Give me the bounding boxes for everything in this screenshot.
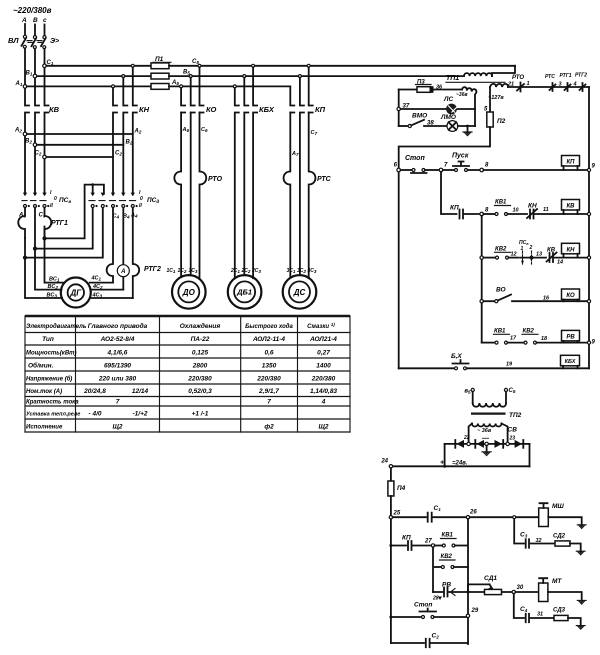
row R3 A3 to PSd pole2 [25, 208, 103, 258]
svg-text:С5: С5 [509, 388, 516, 394]
feeder row A with fuse P1 [27, 85, 151, 87]
svg-text:7: 7 [116, 399, 120, 406]
feeder row C with fuse P1 [46, 65, 151, 67]
svg-text:КН: КН [139, 105, 150, 114]
svg-text:КП: КП [450, 205, 459, 212]
svg-text:А: А [21, 17, 27, 24]
svg-text:220/380: 220/380 [256, 376, 281, 383]
svg-text:КП: КП [402, 535, 411, 542]
relay coil KV [562, 200, 580, 215]
svg-text:2С1: 2С1 [230, 268, 240, 274]
svg-text:ЛМО: ЛМО [440, 114, 456, 121]
svg-text:СД1: СД1 [484, 575, 497, 582]
svg-text:КВ: КВ [566, 204, 575, 210]
wire B bus upper [35, 49, 39, 194]
button Stop [401, 169, 412, 171]
svg-text:Пуск: Пуск [452, 153, 469, 160]
svg-text:0: 0 [54, 196, 57, 202]
svg-text:СД2: СД2 [553, 534, 566, 540]
svg-text:16: 16 [543, 296, 550, 302]
svg-text:РВ: РВ [566, 334, 575, 340]
switch PSd dashed linkage [89, 200, 136, 202]
svg-text:-1/+2: -1/+2 [133, 411, 148, 418]
svg-text:С2: С2 [35, 151, 42, 157]
svg-text:А4: А4 [130, 213, 138, 219]
svg-text:КВ2: КВ2 [495, 247, 507, 253]
switch VMO [399, 125, 408, 127]
svg-text:695/1390: 695/1390 [104, 363, 131, 370]
junction row B to KN wire [122, 75, 125, 78]
svg-text:4,1/6,6: 4,1/6,6 [107, 350, 128, 357]
diode D4 [515, 440, 524, 448]
node 30 [512, 590, 515, 593]
clutch coil MSh [539, 503, 549, 526]
wire C7 with RTS heater [309, 113, 316, 279]
wire B3 middle [34, 208, 36, 248]
svg-text:ВО: ВО [496, 287, 506, 294]
motor DG [61, 278, 91, 308]
svg-text:КО: КО [566, 293, 575, 299]
ground at SD3 [576, 626, 585, 630]
wire A7 with RTS heater [284, 113, 291, 278]
svg-text:2800: 2800 [192, 363, 208, 370]
wire B3 down to motor VS2 [34, 247, 37, 250]
svg-text:РТС: РТС [317, 176, 332, 183]
svg-text:3С3: 3С3 [308, 268, 317, 274]
svg-text:МШ: МШ [552, 503, 564, 510]
svg-text:ДО: ДО [182, 288, 196, 297]
svg-text:Тип: Тип [42, 336, 54, 343]
svg-text:Стоп: Стоп [414, 602, 432, 609]
feeder row B with fuse P1 [37, 75, 151, 77]
svg-text:КВ: КВ [547, 248, 556, 254]
node26 vertical bus [467, 519, 469, 643]
svg-text:КВ2: КВ2 [441, 554, 453, 560]
svg-text:РТГ2: РТГ2 [575, 73, 587, 79]
resistor SD3 [554, 615, 568, 620]
svg-text:ПА-22: ПА-22 [191, 336, 210, 343]
junction row B to DO branch [189, 75, 192, 78]
transformer TP2 core bar [471, 413, 506, 415]
ammeter A [117, 265, 129, 277]
rung KP dc [389, 544, 392, 547]
svg-text:1400: 1400 [316, 363, 331, 370]
svg-text:ДС: ДС [293, 288, 306, 297]
lamp loop left wire [398, 90, 400, 127]
diode D1 [455, 440, 464, 448]
motor DS [283, 275, 317, 309]
svg-text:26: 26 [469, 510, 477, 516]
button Pusk [443, 169, 454, 171]
svg-text:~220/380в: ~220/380в [13, 6, 52, 15]
svg-text:1,14/0,83: 1,14/0,83 [310, 388, 337, 395]
svg-text:РТГ2: РТГ2 [144, 266, 161, 273]
svg-text:КБХ: КБХ [565, 359, 576, 365]
svg-text:Исполнение: Исполнение [26, 425, 63, 431]
contact KV1 [483, 213, 494, 215]
junction row B to DS branch [298, 75, 301, 78]
thermal contact RTO [508, 86, 589, 88]
right control bus [588, 87, 590, 368]
wire phase C drop to switch [44, 25, 46, 36]
fuse P2 [489, 87, 491, 112]
ground at MSh [577, 525, 586, 529]
svg-text:А6: А6 [182, 127, 190, 133]
svg-text:220 или 380: 220 или 380 [98, 376, 137, 383]
button Stop dc [422, 616, 425, 619]
wire B4 with ammeter to 4S2 [122, 208, 124, 290]
svg-text:Кратность тока: Кратность тока [26, 400, 79, 406]
svg-text:Об/мин.: Об/мин. [28, 362, 54, 370]
junction to C3 branch [513, 516, 516, 519]
svg-text:В2: В2 [25, 139, 32, 145]
svg-text:ВМО: ВМО [412, 113, 427, 120]
row R1 C3 to PSd bypass [45, 185, 104, 239]
svg-text:СВ: СВ [508, 427, 518, 434]
switch PSv pole C [42, 193, 49, 208]
contact KV2 dc branch [432, 547, 434, 592]
svg-text:29: 29 [471, 608, 479, 614]
secondary end stubs to bridge [469, 424, 508, 444]
lamp LMO [447, 121, 458, 132]
svg-text:~ 36в: ~ 36в [477, 428, 492, 434]
motor DBH [228, 275, 262, 309]
svg-text:ДГ: ДГ [69, 289, 82, 298]
svg-text:РТС: РТС [545, 74, 555, 80]
bridge center node [485, 442, 488, 445]
svg-text:Щ2: Щ2 [318, 424, 328, 431]
resistor SD2 [555, 541, 570, 546]
discharge branch C3 / SD2 [514, 519, 524, 544]
svg-text:Уставка тепл.реле: Уставка тепл.реле [26, 412, 80, 418]
svg-text:2С2: 2С2 [241, 268, 251, 274]
svg-text:Быстрого хода: Быстрого хода [245, 324, 293, 330]
svg-text:1350: 1350 [262, 363, 277, 370]
thermal relay RTG1 heater on wire A3 [18, 208, 25, 239]
svg-text:22: 22 [463, 435, 470, 441]
transformer secondary ~36V to lamp loop [462, 87, 476, 126]
transformer TP2 primary winding [473, 403, 506, 407]
wire C bus upper [45, 49, 49, 194]
svg-text:~36в: ~36в [456, 92, 468, 98]
node 7 [439, 168, 443, 172]
contact KV2 [483, 257, 495, 259]
svg-text:—: — [481, 436, 490, 443]
wire C3 down to motor VS1 [43, 237, 46, 240]
node 8 lower [480, 212, 484, 216]
transformer TP1 primary winding on row B [464, 73, 492, 76]
svg-text:АОЛ2-11-4: АОЛ2-11-4 [252, 336, 285, 343]
svg-text:12/14: 12/14 [132, 388, 149, 395]
svg-text:18: 18 [541, 336, 548, 342]
wire A4 with RTG2 heater to 4S3 [133, 208, 139, 299]
wire stop to node7 [425, 169, 439, 171]
svg-text:КВ: КВ [49, 105, 60, 114]
svg-text:=24в.: =24в. [452, 461, 468, 467]
lamp LS [446, 104, 458, 115]
button BH [455, 367, 458, 370]
row B2 crossover [33, 143, 37, 147]
dc output wire to node 24 [391, 465, 530, 467]
svg-text:Стоп: Стоп [405, 155, 425, 162]
node 26 [466, 516, 469, 519]
svg-text:30: 30 [517, 585, 524, 591]
contactor KN branch wires [113, 88, 117, 195]
row C2 crossover [43, 155, 47, 159]
junction row B to DBH branch [243, 75, 246, 78]
svg-text:А5: А5 [171, 80, 179, 86]
svg-text:КВ1: КВ1 [495, 200, 507, 206]
svg-text:0,6: 0,6 [264, 350, 273, 357]
svg-text:12: 12 [511, 252, 517, 258]
node A1 [23, 85, 27, 89]
svg-text:П4: П4 [397, 485, 406, 492]
junction row C to DO branch [198, 64, 201, 67]
contactor KO contacts [181, 88, 185, 113]
relay coil KO [562, 289, 580, 301]
wire to KP coil [483, 169, 589, 171]
fuse P4 [390, 468, 392, 481]
relay coil KP [562, 156, 580, 171]
node C1 [43, 64, 47, 68]
transformer TP1 bracket from row C [492, 66, 515, 76]
node 6 [397, 168, 401, 172]
svg-text:- 4/0: - 4/0 [88, 411, 101, 418]
fuse P3 [399, 89, 417, 91]
svg-text:С7: С7 [311, 130, 318, 136]
transformer secondary ~127V winding [490, 84, 508, 87]
motor DG 4S rows [90, 283, 133, 298]
junction at potentiometer [467, 591, 470, 594]
svg-text:А2: А2 [14, 128, 22, 134]
svg-text:с: с [43, 17, 47, 24]
switch VO [495, 300, 498, 303]
bridge row wire [445, 443, 530, 445]
svg-text:31: 31 [537, 612, 543, 618]
svg-text:220/380: 220/380 [311, 376, 336, 383]
svg-text:ТП2: ТП2 [509, 412, 522, 419]
svg-text:1С2: 1С2 [178, 268, 187, 274]
diode D3 [495, 440, 504, 448]
relay coil KN [562, 243, 580, 257]
motor DO [172, 275, 206, 309]
svg-text:3С2: 3С2 [297, 268, 306, 274]
svg-text:В2: В2 [126, 140, 133, 146]
relay coil KBH [561, 355, 580, 368]
svg-text:0,125: 0,125 [192, 350, 209, 357]
svg-text:21: 21 [507, 82, 514, 88]
contactor KP contacts [290, 88, 294, 113]
ground at MT [577, 600, 586, 604]
switch PSv dashed linkage [22, 200, 46, 202]
contactor KBH contacts [235, 88, 239, 278]
svg-text:РТГ1: РТГ1 [51, 220, 68, 227]
junction row A to KN wire [112, 85, 115, 88]
svg-text:13: 13 [536, 252, 542, 258]
svg-text:220/380: 220/380 [187, 376, 212, 383]
svg-text:КП: КП [566, 160, 575, 166]
svg-text:27: 27 [424, 539, 432, 545]
wire phase B drop to switch [34, 25, 36, 36]
svg-text:20/24,8: 20/24,8 [83, 388, 106, 395]
junction PSd pole1 top feed [91, 183, 94, 186]
svg-text:КН: КН [528, 203, 537, 210]
table frame [25, 315, 350, 318]
svg-text:КБХ: КБХ [259, 105, 275, 114]
svg-text:+: + [440, 460, 444, 467]
svg-text:24: 24 [380, 459, 388, 465]
node B1 [33, 74, 37, 78]
junction row A to DO branch [180, 85, 183, 88]
svg-text:28: 28 [432, 596, 439, 602]
svg-text:С6: С6 [201, 127, 208, 133]
node 29 [466, 614, 469, 617]
wire node7 down [441, 172, 457, 214]
svg-text:РТО: РТО [208, 176, 223, 183]
transformer TP2 secondary winding [472, 424, 501, 427]
svg-text:ВС2: ВС2 [48, 284, 59, 290]
junction at ground tap [466, 125, 469, 128]
relay coil RV [562, 330, 580, 342]
svg-text:АОЛ21-4: АОЛ21-4 [309, 336, 337, 343]
svg-text:КН: КН [566, 247, 575, 253]
svg-text:В: В [33, 17, 38, 24]
node 37 [397, 107, 400, 110]
svg-text:4С1: 4С1 [91, 276, 102, 282]
svg-text:РТО: РТО [512, 75, 524, 81]
svg-text:С2: С2 [115, 151, 122, 157]
svg-text:0,27: 0,27 [317, 350, 330, 357]
row R2 B3 to PSd pole1 [35, 208, 93, 249]
switch VL pole C [41, 36, 46, 49]
svg-text:ф2: ф2 [264, 424, 274, 431]
ground at SD2 [576, 551, 585, 555]
svg-text:1С3: 1С3 [189, 268, 198, 274]
svg-text:10: 10 [513, 208, 519, 214]
wire A3 down to motor VS3 [24, 256, 27, 259]
svg-text:Э>: Э> [50, 38, 59, 45]
node 8 vertical [481, 216, 483, 343]
svg-text:ДБ1: ДБ1 [236, 288, 252, 297]
wire phase A drop to switch [24, 24, 26, 35]
svg-text:+1 /-1: +1 /-1 [192, 411, 209, 418]
node C5 tap [504, 388, 507, 391]
svg-text:А1: А1 [15, 81, 23, 87]
svg-text:14: 14 [557, 260, 563, 266]
wire A6 with RTO heater [174, 113, 181, 278]
svg-text:МТ: МТ [552, 578, 562, 585]
thermal relay RTG1 heater on wire C3 [45, 208, 52, 239]
switch VL pole A [22, 35, 27, 48]
svg-text:Щ2: Щ2 [112, 424, 122, 431]
svg-text:ТП1: ТП1 [446, 75, 459, 82]
svg-text:ЛС: ЛС [443, 96, 453, 103]
svg-text:А7: А7 [291, 151, 299, 157]
svg-text:В1: В1 [26, 71, 33, 77]
svg-text:ВС3: ВС3 [47, 293, 58, 299]
svg-text:КО: КО [206, 105, 217, 114]
svg-text:4: 4 [321, 399, 326, 406]
junction row C to DS branch [307, 64, 310, 67]
svg-text:КВ1: КВ1 [442, 533, 454, 539]
node 9 lower [587, 341, 590, 344]
svg-text:Напряжение (б): Напряжение (б) [26, 376, 72, 383]
node 24 [389, 465, 392, 468]
node B5 tap [471, 388, 474, 391]
ground at lamp circuit [463, 126, 472, 136]
svg-text:Мощность(кВт): Мощность(кВт) [26, 351, 77, 357]
capacitor C1 [393, 516, 426, 518]
junction row C to DBH branch [252, 64, 255, 67]
svg-text:3: 3 [559, 82, 562, 88]
svg-text:3С1: 3С1 [287, 268, 296, 274]
svg-text:Электродвигатель: Электродвигатель [26, 324, 87, 330]
switch VL linkage dashes [27, 41, 43, 43]
node 8 [480, 168, 484, 172]
svg-text:Ном.ток (А): Ном.ток (А) [26, 389, 62, 395]
svg-text:4: 4 [573, 82, 577, 88]
wire A bus upper [25, 48, 29, 194]
brake coil MT [516, 591, 539, 593]
svg-text:КВ2: КВ2 [523, 329, 535, 335]
svg-text:2С3: 2С3 [251, 268, 261, 274]
junction row A to DBH branch [233, 85, 236, 88]
svg-text:Главного привода: Главного привода [88, 322, 148, 330]
svg-text:АО2-52-8/4: АО2-52-8/4 [100, 336, 135, 343]
diode D2 [475, 440, 484, 448]
svg-text:17: 17 [510, 336, 517, 342]
svg-text:2,9/1,7: 2,9/1,7 [258, 388, 279, 395]
node 22 [467, 442, 470, 445]
svg-text:25: 25 [393, 511, 401, 517]
switch VL pole B [32, 36, 37, 49]
svg-text:Б,Х: Б,Х [451, 353, 462, 360]
svg-text:СД3: СД3 [553, 608, 566, 614]
svg-text:А2: А2 [134, 129, 142, 135]
wire B6 [190, 113, 192, 276]
wire LMO to loop right [458, 125, 475, 127]
node 9 [587, 168, 590, 171]
wire to lamp LS [400, 108, 475, 110]
node 25 [389, 516, 392, 519]
discharge branch C4 / SD3 [514, 594, 524, 618]
left dc bus [390, 496, 392, 643]
node 23 [506, 442, 509, 445]
svg-text:П2: П2 [497, 118, 506, 125]
bridge output corners [445, 444, 530, 466]
rung capacitor C2 [391, 642, 424, 644]
ground at bridge center [482, 446, 491, 456]
svg-text:1С1: 1С1 [167, 268, 176, 274]
switch PSv pole A [23, 193, 30, 208]
left control bus [398, 172, 400, 369]
svg-text:19: 19 [506, 362, 513, 368]
potentiometer SD1 wiper loop [468, 584, 490, 592]
svg-text:РТГ1: РТГ1 [560, 73, 572, 79]
svg-text:А: А [120, 269, 125, 275]
svg-text:ВС1: ВС1 [49, 277, 60, 283]
potentiometer SD1 [485, 589, 502, 594]
svg-text:2: 2 [529, 245, 533, 251]
wire C6 with RTO heater [200, 113, 207, 280]
junction row C to KN wire [131, 64, 134, 67]
svg-text:11: 11 [543, 207, 549, 213]
svg-text:0,52/0,3: 0,52/0,3 [188, 388, 212, 395]
wire C4 with RTG2 heater to 4S1 [107, 208, 113, 283]
svg-text:КП: КП [315, 105, 326, 114]
rung Stop dc [389, 616, 392, 619]
row A2 crossover [23, 132, 27, 136]
